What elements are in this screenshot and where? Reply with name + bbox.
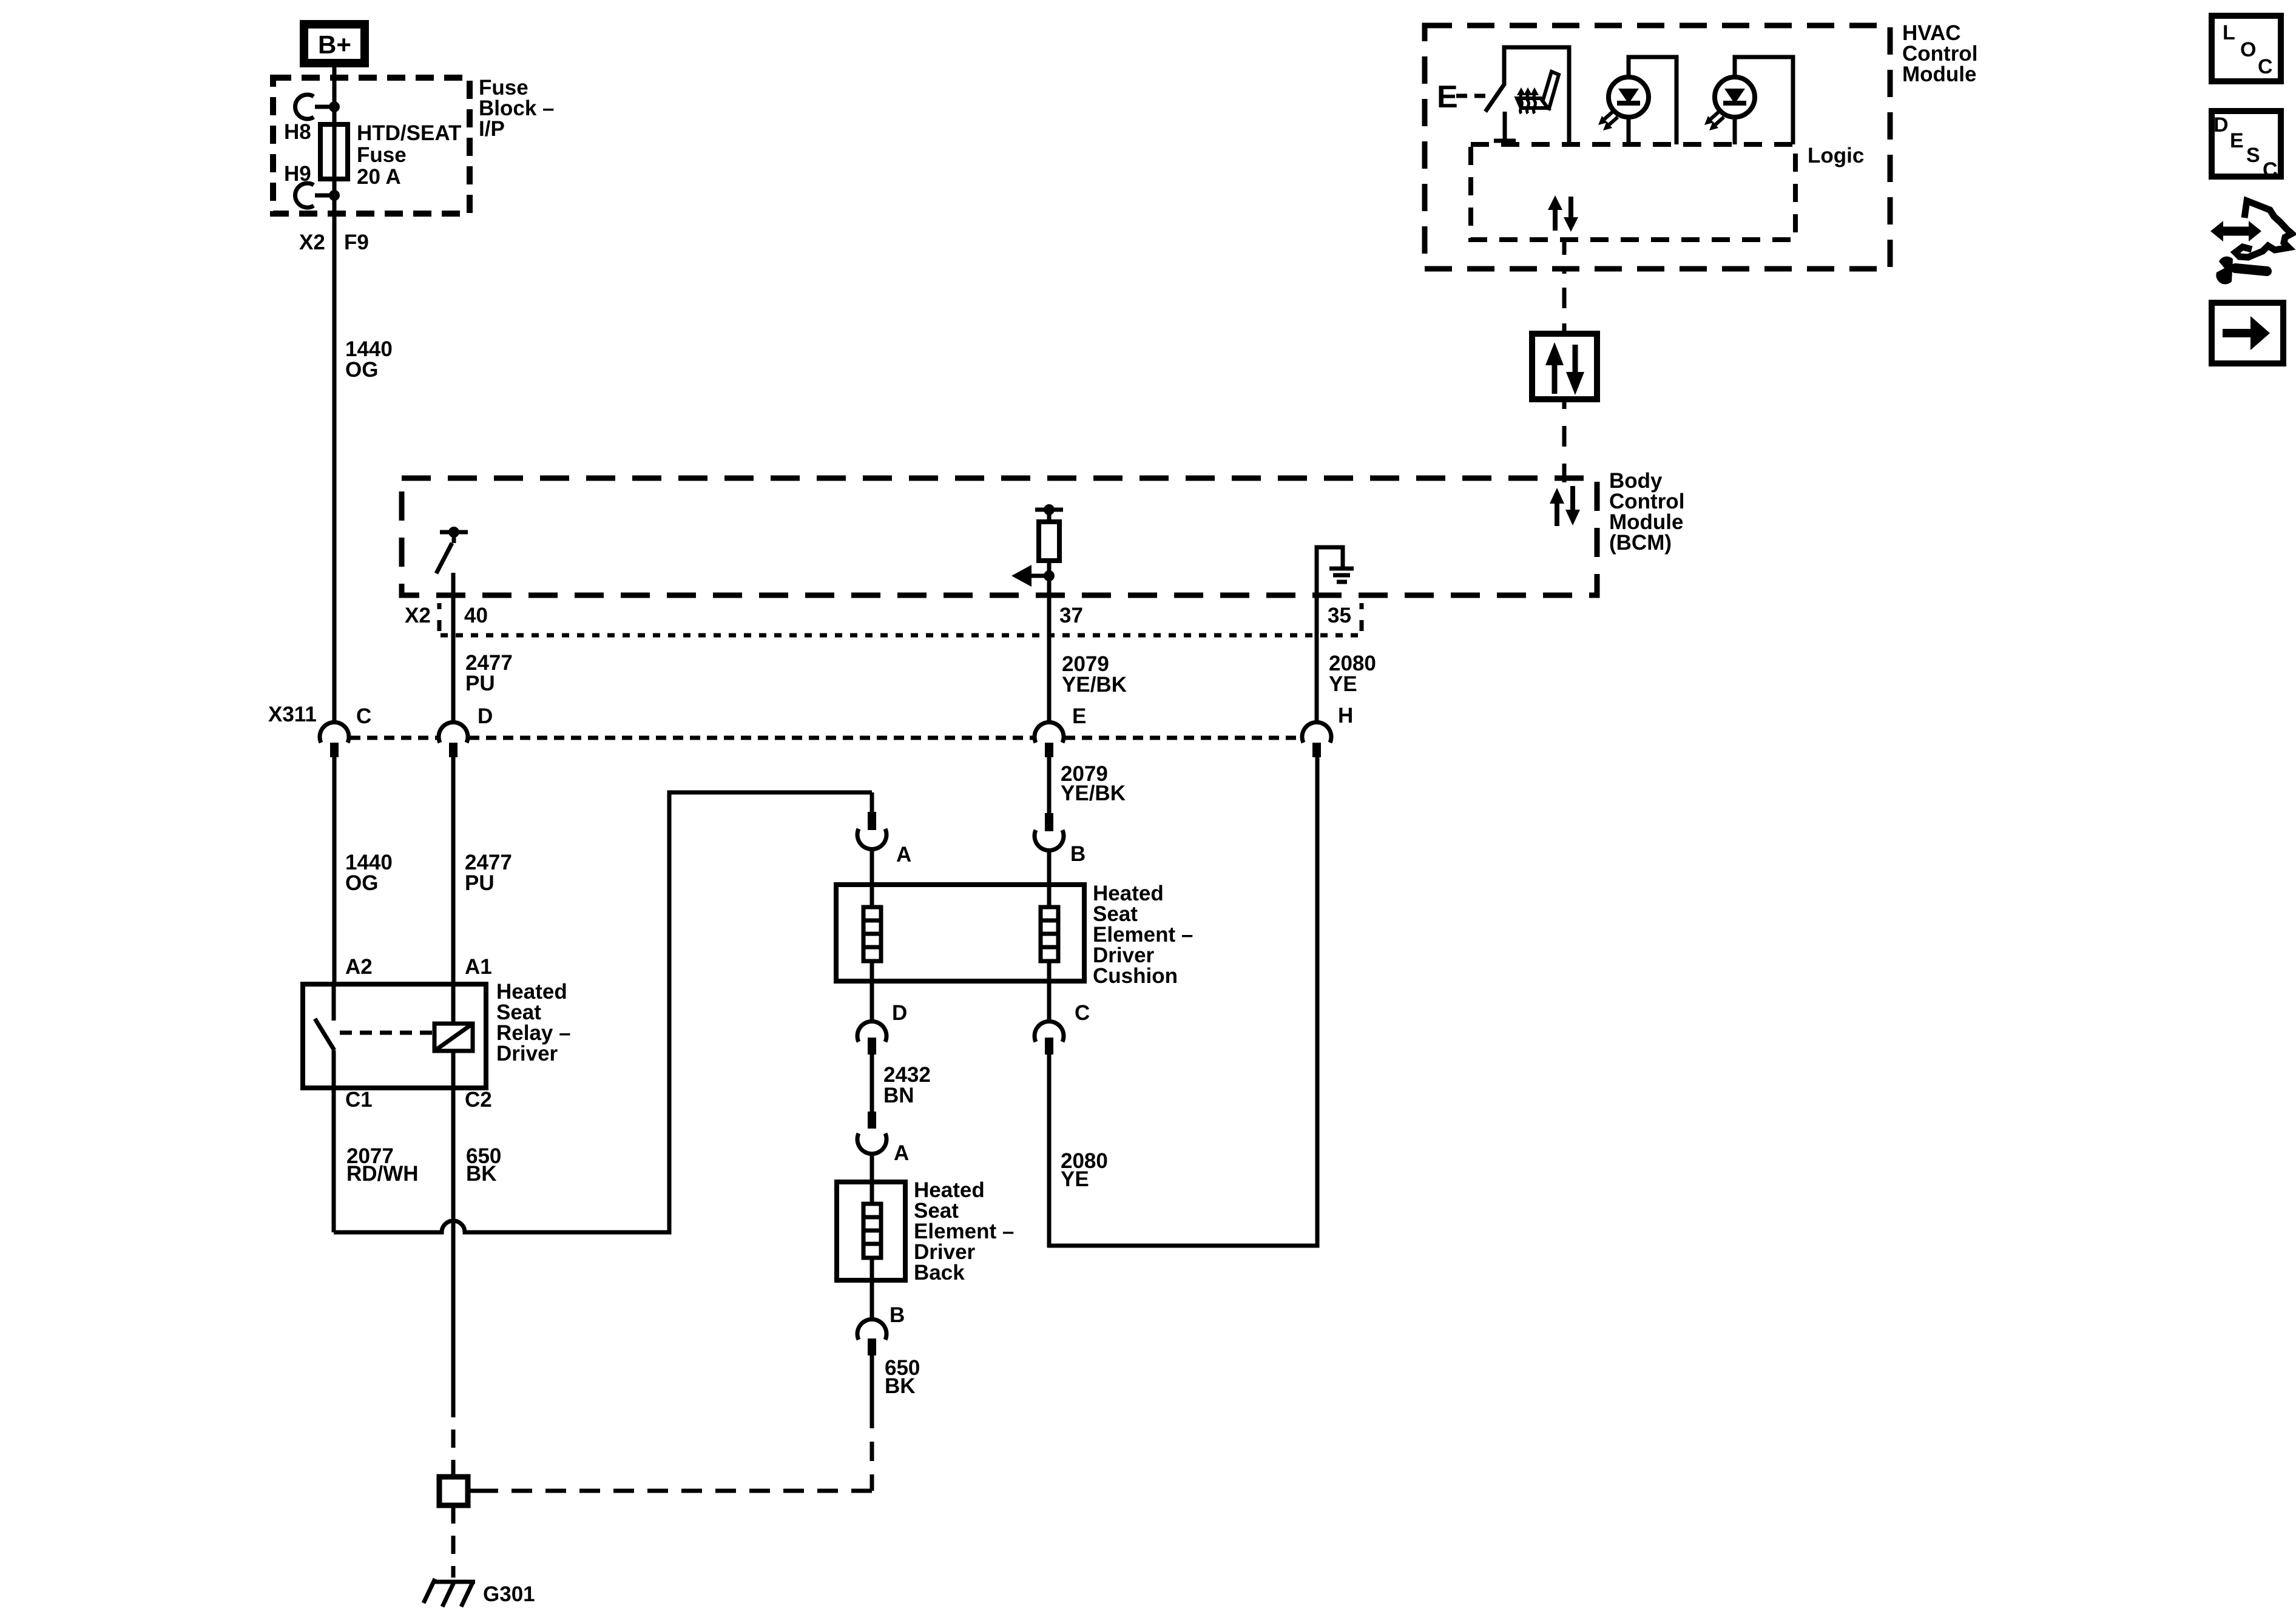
HVAC control module label (1902, 21, 1977, 86)
wire label 2080 YE (upper) (1329, 652, 1376, 696)
wire BCM pin 40 to X311 D (451, 573, 456, 723)
BCM label (1609, 469, 1684, 555)
svg-text:F9: F9 (344, 231, 369, 254)
svg-text:BN: BN (883, 1084, 914, 1107)
svg-text:37: 37 (1059, 604, 1083, 627)
svg-text:YE: YE (1061, 1167, 1089, 1191)
relay internal dashed link (340, 1031, 434, 1035)
svg-text:X311: X311 (268, 703, 317, 726)
X311 terminal D (439, 722, 468, 757)
serial data arrows in BCM (1550, 486, 1580, 526)
HVAC control module dashed box (1425, 25, 1890, 269)
wire BCM pin 37 to X311 E (1047, 576, 1052, 723)
heated seat element driver back box (837, 1182, 905, 1280)
wire label 650 BK (relay) (466, 1144, 501, 1186)
wire 1440 OG from fuse to X311 C (333, 195, 337, 723)
svg-text:PU: PU (465, 672, 495, 695)
wire label 2080 YE (lower) (1061, 1149, 1108, 1191)
wire 2080 YE from cushion C to X311 H (1049, 757, 1317, 1246)
svg-text:C: C (356, 704, 371, 728)
relay switch contact (315, 984, 334, 1088)
cushion element label (1093, 882, 1193, 988)
wire 2432 BN (870, 1055, 874, 1112)
LOC icon box (2212, 16, 2281, 81)
fuse block I/P dashed box (273, 78, 470, 214)
svg-text:C2: C2 (465, 1088, 492, 1112)
svg-text:20 A: 20 A (357, 165, 401, 189)
fuse HTD/SEAT 20A (320, 107, 348, 195)
back element terminal A (857, 1112, 886, 1182)
svg-text:A: A (896, 843, 911, 866)
svg-text:H8: H8 (284, 120, 311, 144)
relay coil (434, 984, 473, 1088)
body control module dashed box (402, 478, 1597, 595)
harness routing icon (double arrow, outline, wrench) (2210, 201, 2292, 284)
svg-text:B: B (1070, 842, 1086, 866)
back element label (914, 1178, 1014, 1284)
svg-text:BK: BK (885, 1374, 916, 1398)
X311 terminal E (1035, 722, 1064, 757)
dashed 650 BK from relay C2 to splice (451, 1399, 456, 1477)
wire from B+ into fuse block (333, 67, 337, 104)
cushion heater element left (863, 885, 881, 981)
connector X311 dotted line (350, 736, 1301, 740)
back element terminal B (857, 1280, 886, 1355)
serial data link HVAC to BCM (dashed) (1562, 240, 1567, 334)
heated seat element driver cushion box (836, 885, 1084, 981)
svg-text:OG: OG (345, 358, 378, 382)
svg-text:Fuse: Fuse (357, 143, 407, 167)
indicator LED 2 (1704, 57, 1793, 144)
wire label 1440 OG (lower) (345, 851, 393, 895)
junction dot below fuse (329, 190, 340, 201)
cushion heater element right (1041, 885, 1058, 981)
svg-text:B: B (890, 1303, 905, 1327)
svg-text:B+: B+ (318, 30, 351, 59)
wire label 2432 BN (883, 1063, 931, 1107)
svg-text:E: E (2230, 129, 2244, 152)
svg-text:RD/WH: RD/WH (346, 1162, 419, 1186)
fuse block label (479, 76, 555, 141)
heated seat switch (HVAC) (1485, 47, 1569, 144)
svg-text:H: H (1338, 704, 1353, 727)
logic block dashed box (1471, 144, 1795, 240)
svg-text:X2: X2 (405, 604, 431, 627)
svg-text:A2: A2 (345, 955, 373, 979)
svg-text:HTD/SEAT: HTD/SEAT (357, 121, 461, 145)
X311 terminal C (320, 722, 349, 757)
battery feed B+ (304, 24, 365, 63)
BCM driver switch (pin 40) (436, 527, 468, 573)
splice (439, 1477, 478, 1505)
cushion element terminal D (857, 981, 886, 1055)
DESC icon box (2212, 111, 2281, 181)
svg-text:S: S (2246, 144, 2260, 167)
svg-text:PU: PU (465, 871, 495, 895)
wire 2079 YE/BK from X311 E to cushion element B (1047, 757, 1052, 813)
ground G301 (424, 1579, 475, 1607)
svg-text:C: C (2258, 55, 2273, 78)
svg-text:Logic: Logic (1808, 144, 1864, 167)
X311 terminal H (1302, 722, 1331, 757)
wire 1440 OG from X311 C to relay A2 (333, 757, 337, 984)
svg-text:C1: C1 (345, 1088, 373, 1112)
wire label 2079 YE/BK (lower) (1061, 762, 1126, 805)
svg-text:A1: A1 (465, 955, 492, 979)
svg-text:35: 35 (1328, 604, 1351, 627)
wire label 2477 PU (lower) (465, 851, 512, 895)
svg-text:I/P: I/P (479, 117, 505, 141)
fuse clip H8 (top cavity) (295, 95, 331, 119)
continuation arrow icon box (2212, 303, 2283, 363)
svg-text:E: E (1437, 79, 1458, 115)
wire 2077 RD/WH from relay C1 (332, 1088, 336, 1232)
svg-text:YE/BK: YE/BK (1062, 673, 1127, 697)
wire label 650 BK (back) (885, 1356, 920, 1398)
svg-text:OG: OG (345, 871, 378, 895)
fuse clip H9 (bottom cavity) (295, 183, 331, 208)
wire 2477 PU from X311 D to relay A1 (451, 757, 456, 984)
serial data arrows in logic block (1548, 195, 1578, 232)
svg-text:Driver: Driver (496, 1042, 558, 1065)
svg-text:(BCM): (BCM) (1609, 531, 1672, 555)
cushion element terminal A (857, 792, 886, 885)
svg-text:Cushion: Cushion (1093, 964, 1178, 988)
BCM internal ground (pin 35) (1317, 547, 1354, 582)
dashed ground wire from back element to splice (477, 1409, 872, 1491)
heated seat icon (1517, 72, 1559, 113)
wire label 2477 PU (upper) (465, 651, 513, 695)
svg-text:L: L (2223, 21, 2235, 44)
heated seat relay driver box (303, 984, 486, 1088)
svg-text:C: C (1075, 1001, 1090, 1025)
BCM sense arrow (pin 37) (1011, 565, 1055, 587)
svg-text:A: A (894, 1141, 909, 1165)
wire label 2077 RD/WH (346, 1144, 419, 1186)
dashed wire splice to ground (451, 1505, 456, 1578)
BCM pull-up resistor (pin 37) (1035, 504, 1063, 576)
svg-text:Back: Back (914, 1261, 965, 1284)
relay label (496, 980, 571, 1065)
connector X2 / cavity F9 labels (299, 231, 369, 254)
wire label 2079 YE/BK (upper) (1062, 652, 1127, 697)
wire 650 BK from relay C2 (451, 1088, 456, 1399)
cushion element terminal C (1035, 981, 1064, 1055)
dashed internal wire from E (1456, 94, 1485, 98)
svg-text:D: D (892, 1001, 907, 1025)
wire BCM pin 35 to X311 H (1315, 547, 1319, 723)
svg-text:YE/BK: YE/BK (1061, 781, 1126, 805)
svg-text:BK: BK (466, 1162, 497, 1186)
serial data link lower dashed (1562, 402, 1567, 482)
back heater element (863, 1182, 881, 1280)
wire 2077 RD/WH run to cushion element A (with hop) (334, 792, 872, 1232)
svg-text:Module: Module (1902, 62, 1976, 86)
fuse value label (357, 121, 461, 189)
svg-text:G301: G301 (483, 1582, 535, 1606)
wire label 1440 OG (345, 337, 393, 382)
svg-text:C: C (2263, 158, 2278, 181)
svg-text:YE: YE (1329, 672, 1357, 696)
svg-text:O: O (2240, 38, 2256, 61)
svg-text:D: D (478, 704, 493, 728)
junction dot above fuse (329, 101, 340, 112)
svg-text:E: E (1072, 704, 1086, 728)
wire 650 BK below back element (870, 1355, 874, 1409)
indicator LED 1 (1598, 57, 1676, 144)
cushion element terminal B (1035, 813, 1064, 885)
serial data gateway symbol (1532, 334, 1597, 399)
svg-text:X2: X2 (299, 231, 325, 254)
BCM connector X2 row (405, 603, 1365, 635)
svg-text:D: D (2213, 113, 2229, 137)
svg-text:40: 40 (464, 604, 488, 627)
